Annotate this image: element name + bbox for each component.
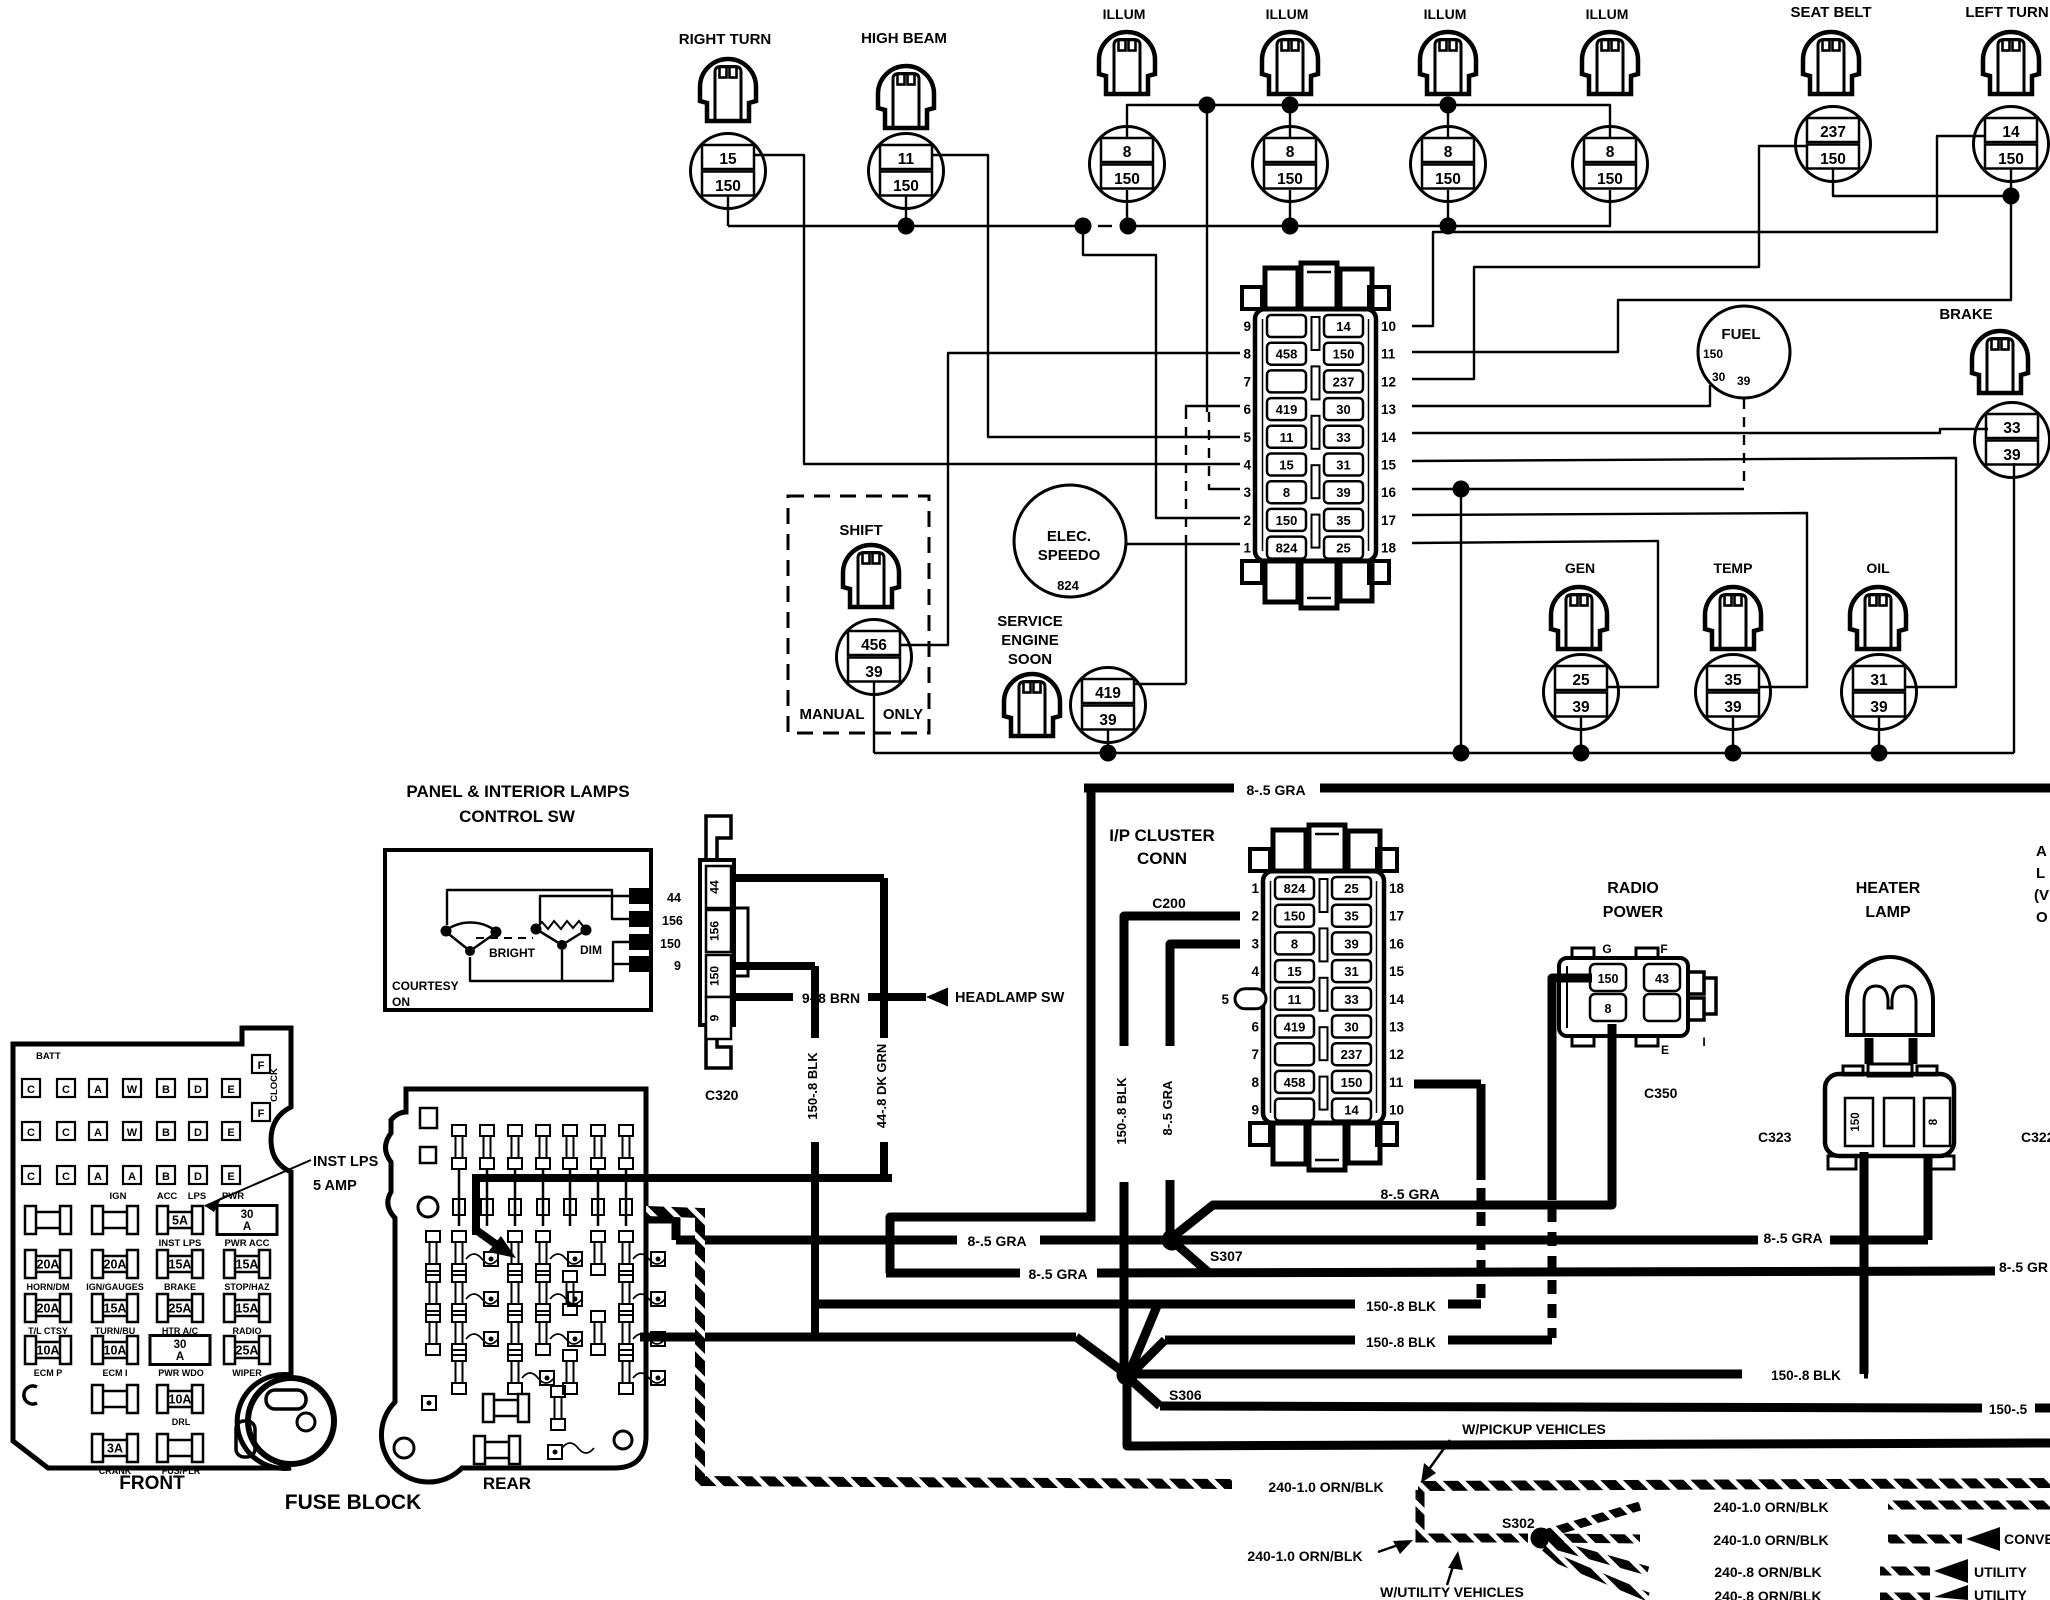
svg-text:5 AMP: 5 AMP (313, 1178, 357, 1194)
svg-text:4: 4 (1243, 458, 1251, 473)
svg-text:W/PICKUP VEHICLES: W/PICKUP VEHICLES (1462, 1421, 1606, 1437)
svg-text:25: 25 (1336, 541, 1350, 556)
wire 419 to pin 6 (dashed riser) (1134, 683, 1186, 685)
svg-text:15: 15 (1287, 964, 1301, 979)
lamp RIGHT TURN bulb (700, 59, 756, 121)
svg-text:POWER: POWER (1603, 904, 1664, 921)
lamp BRAKE bulb (1972, 331, 2028, 393)
svg-text:30: 30 (174, 1339, 187, 1351)
svg-text:15: 15 (1279, 458, 1293, 473)
svg-text:150-.8 BLK: 150-.8 BLK (805, 1052, 820, 1120)
svg-text:B: B (162, 1127, 170, 1139)
svg-text:824: 824 (1284, 881, 1306, 896)
connector circle 456/39 (shift) (837, 620, 912, 695)
svg-text:150: 150 (1597, 171, 1623, 188)
svg-text:STOP/HAZ: STOP/HAZ (224, 1282, 270, 1292)
wire pin16 riser to ground bus (1460, 489, 1462, 753)
svg-text:RADIO: RADIO (1607, 880, 1659, 897)
svg-text:15A: 15A (169, 1258, 192, 1272)
svg-text:G: G (1602, 942, 1611, 956)
svg-text:F: F (1660, 942, 1667, 956)
wire right-turn circle to bus (727, 196, 729, 226)
wire 419/39 drop to ground bus (1107, 730, 1109, 753)
svg-text:ON: ON (392, 995, 410, 1009)
heater lamp leads (1865, 1038, 1874, 1064)
wire radio G 150 dashed drop (1552, 978, 1592, 1200)
svg-text:SOON: SOON (1008, 651, 1052, 668)
connector circle 25/39 (gen) (1544, 655, 1619, 730)
junction dot bus 1128 (1120, 218, 1137, 235)
connector C323 heater (1825, 1074, 1954, 1156)
svg-text:5: 5 (1243, 430, 1251, 445)
fuse row E (92, 1385, 138, 1413)
rear block lower elements (426, 1231, 440, 1275)
lamp GEN bulb (1551, 587, 1607, 649)
rheostat BRIGHT (445, 922, 497, 951)
svg-text:ILLUM: ILLUM (1424, 6, 1467, 22)
svg-text:240-1.0 ORN/BLK: 240-1.0 ORN/BLK (1268, 1479, 1383, 1495)
rear block bottom fuses (483, 1394, 529, 1422)
svg-text:419: 419 (1276, 402, 1298, 417)
lamp LEFT TURN bulb (1983, 32, 2039, 94)
svg-text:SEAT BELT: SEAT BELT (1790, 4, 1871, 21)
wire 8-.5 GRA instrument feed bus (1084, 784, 1234, 793)
svg-text:RADIO: RADIO (233, 1326, 262, 1336)
svg-text:A: A (94, 1127, 102, 1139)
wire illum3 top riser (1447, 105, 1449, 138)
wire left-turn 150 drop (2010, 169, 2012, 196)
connector circle ILLUM 4 (1573, 127, 1648, 202)
wire S306 to 150 BLK line y=1304 (1130, 1306, 1157, 1371)
junction dot illum2 bottom (1282, 218, 1299, 235)
hatched 240-1.0 ORN/BLK from rear block (646, 1211, 1232, 1484)
I/P cluster connector C200 (lower) (1221, 825, 1404, 1170)
svg-text:CONTROL SW: CONTROL SW (459, 807, 576, 826)
svg-text:HIGH BEAM: HIGH BEAM (861, 30, 947, 47)
svg-text:PWR ACC: PWR ACC (224, 1238, 269, 1249)
svg-text:E: E (227, 1084, 234, 1096)
wire shift 456 to pin 8 (900, 353, 1240, 645)
svg-text:UTILITY: UTILITY (1974, 1587, 2028, 1600)
svg-text:150: 150 (1435, 171, 1461, 188)
wire 8-.5 GRA bus y=1272 to right edge (886, 1269, 1020, 1278)
wire illum2 circle to bus (1289, 190, 1291, 226)
fuse row A (25, 1206, 71, 1234)
junction S307 (1162, 1230, 1183, 1251)
junction dot illum2 top (1282, 97, 1299, 114)
svg-text:10A: 10A (169, 1393, 192, 1407)
svg-text:PWR WDO: PWR WDO (158, 1368, 204, 1378)
svg-text:A: A (2036, 843, 2047, 860)
svg-text:ECM P: ECM P (34, 1368, 63, 1378)
svg-text:13: 13 (1381, 402, 1397, 417)
wire right-turn 15 to pin 4 (754, 155, 1240, 464)
fuse row B (25, 1250, 71, 1278)
svg-text:B: B (162, 1084, 170, 1096)
svg-text:15: 15 (1381, 458, 1397, 473)
svg-text:150: 150 (708, 966, 722, 986)
connector circle 11/150 (high beam) (869, 134, 944, 209)
svg-text:12: 12 (1389, 1047, 1404, 1062)
svg-text:11: 11 (1280, 430, 1294, 445)
svg-text:C200: C200 (1152, 895, 1186, 911)
fuse row F (92, 1434, 138, 1462)
svg-text:I: I (1702, 1035, 1705, 1049)
wire elec speedo to pin 1 (1126, 543, 1240, 545)
svg-text:240-1.0 ORN/BLK: 240-1.0 ORN/BLK (1713, 1532, 1828, 1548)
rear block fuse columns (452, 1125, 466, 1169)
svg-text:ILLUM: ILLUM (1586, 6, 1629, 22)
wire S306 to 150 BLK line y=1340 (radio) (1133, 1340, 1165, 1372)
svg-text:ENGINE: ENGINE (1001, 632, 1059, 649)
svg-text:150: 150 (1850, 1112, 1862, 1131)
svg-text:15A: 15A (236, 1302, 259, 1316)
svg-text:5: 5 (1221, 992, 1229, 1007)
svg-text:8-.5 GRA: 8-.5 GRA (1028, 1266, 1087, 1282)
svg-text:O: O (2036, 909, 2048, 926)
svg-text:11: 11 (1381, 347, 1396, 362)
front block left C-cut (24, 1386, 37, 1404)
junction dot pin16 riser on ground bus (1453, 745, 1470, 762)
wire pin 18 to gen 25 (1412, 541, 1658, 687)
terminal letter grid (22, 1079, 40, 1097)
junction dot oil (1871, 745, 1888, 762)
svg-text:419: 419 (1095, 685, 1121, 702)
connector C350 radio power (1559, 958, 1688, 1036)
lamp ILLUM 3 bulb (1420, 32, 1476, 94)
svg-text:31: 31 (1870, 672, 1888, 689)
svg-text:REAR: REAR (483, 1474, 531, 1493)
junction dot feed bus to pin3 riser (1199, 97, 1216, 114)
svg-text:F: F (258, 1108, 265, 1120)
svg-text:8: 8 (1286, 144, 1295, 161)
svg-text:DIM: DIM (580, 943, 602, 957)
connector circle 237/150 (seat belt) (1796, 107, 1871, 182)
junction dot 419/39 on ground bus (1100, 745, 1117, 762)
svg-text:UTILITY: UTILITY (1974, 1564, 2028, 1580)
svg-text:ILLUM: ILLUM (1103, 6, 1146, 22)
gauge ELEC SPEEDO (1014, 485, 1126, 597)
wire fuel 30 to pin 13 (1412, 385, 1710, 406)
svg-text:D: D (194, 1127, 202, 1139)
svg-text:44: 44 (667, 891, 681, 905)
wire 8 GRA from rear block corner (646, 1219, 676, 1240)
svg-text:30: 30 (1712, 370, 1726, 384)
junction dot pin16 (1453, 481, 1470, 498)
svg-text:39: 39 (1336, 485, 1350, 500)
svg-text:14: 14 (1381, 430, 1397, 445)
svg-text:C323: C323 (1758, 1129, 1792, 1145)
svg-text:RIGHT TURN: RIGHT TURN (679, 31, 772, 48)
svg-text:C: C (27, 1171, 35, 1183)
svg-text:MANUAL: MANUAL (800, 706, 865, 723)
svg-text:CONVEN: CONVEN (2004, 1531, 2050, 1547)
svg-text:15: 15 (719, 151, 737, 168)
svg-text:E: E (227, 1171, 234, 1183)
arrow into fuse (476, 1230, 497, 1245)
REAR fuse block outline (381, 1089, 646, 1482)
svg-text:35: 35 (1336, 513, 1350, 528)
hatched drop to S302 (1420, 1490, 1528, 1538)
wire illum2 top riser (1289, 105, 1291, 138)
svg-text:15A: 15A (236, 1258, 259, 1272)
wire C320 pin44 44-.8 DK GRN (732, 874, 884, 882)
svg-text:150: 150 (1276, 513, 1298, 528)
svg-text:39: 39 (1724, 699, 1742, 716)
junction S306 (1117, 1365, 1138, 1386)
svg-text:A: A (243, 1221, 251, 1233)
svg-text:GEN: GEN (1565, 560, 1595, 576)
svg-text:35: 35 (1344, 909, 1358, 924)
rear block small holes (420, 1108, 437, 1128)
svg-text:11: 11 (898, 151, 915, 168)
S302 branch 2 240-1.0 ORN/BLK -> CONVEN (1550, 1538, 1640, 1539)
svg-text:IGN: IGN (110, 1191, 127, 1202)
svg-text:IGN/GAUGES: IGN/GAUGES (86, 1282, 144, 1292)
svg-text:8: 8 (1928, 1118, 1940, 1125)
wire brake 39 drop (2013, 463, 2015, 753)
svg-text:31: 31 (1344, 964, 1358, 979)
connector circle 15/150 (right turn) (691, 134, 766, 209)
svg-text:7: 7 (1243, 374, 1251, 389)
svg-text:ONLY: ONLY (883, 706, 923, 723)
svg-text:150-.5: 150-.5 (1989, 1402, 2028, 1417)
svg-text:8: 8 (1291, 936, 1298, 951)
svg-text:9: 9 (674, 959, 681, 973)
svg-text:20A: 20A (37, 1302, 60, 1316)
wire illum feed bus 8 (y=105) (1127, 105, 1610, 138)
junction dot illum3 top (1440, 97, 1457, 114)
wire fuel 39 dashed to pin 16 line (1743, 399, 1745, 487)
svg-text:FUSE BLOCK: FUSE BLOCK (285, 1491, 422, 1514)
svg-text:E: E (1661, 1043, 1669, 1057)
connector circle ILLUM 2 (1253, 127, 1328, 202)
svg-text:10: 10 (1389, 1103, 1404, 1118)
svg-text:150: 150 (1114, 171, 1140, 188)
svg-text:43: 43 (1655, 972, 1669, 986)
wire feed bus to pin 3 (circuit 8) (1206, 105, 1208, 412)
svg-text:BATT: BATT (36, 1051, 61, 1062)
svg-text:2: 2 (1243, 513, 1251, 528)
wire S307 diagonal to 8 GRA bus y=1272 (1176, 1244, 1208, 1272)
wire rear block 150 BLK to S306 (640, 1333, 1076, 1342)
svg-text:8-.5 GRA: 8-.5 GRA (967, 1233, 1026, 1249)
wire C200 pin11 150 to dashed riser (1414, 1080, 1481, 1089)
svg-text:30: 30 (1336, 402, 1350, 417)
svg-text:C350: C350 (1644, 1085, 1678, 1101)
svg-text:25: 25 (1344, 881, 1358, 896)
svg-text:PANEL & INTERIOR LAMPS: PANEL & INTERIOR LAMPS (406, 782, 629, 801)
svg-text:11: 11 (1288, 992, 1302, 1007)
svg-text:150-.8 BLK: 150-.8 BLK (1771, 1368, 1841, 1383)
svg-text:458: 458 (1276, 347, 1298, 362)
svg-text:150-.8 BLK: 150-.8 BLK (1114, 1077, 1129, 1145)
wire C320 pin150 150-.8 BLK (732, 962, 815, 970)
wire pin 17 to temp 35 (1412, 513, 1807, 687)
lamp SHIFT bulb (843, 545, 899, 607)
dashed wiper link bright-dim (476, 937, 533, 939)
svg-text:TEMP: TEMP (1714, 560, 1753, 576)
svg-text:150: 150 (1277, 171, 1303, 188)
connector circle 419/39 (service engine soon) (1071, 668, 1146, 743)
svg-text:A: A (94, 1084, 102, 1096)
svg-text:20A: 20A (37, 1258, 60, 1272)
svg-text:4: 4 (1251, 964, 1259, 979)
svg-text:ECM I: ECM I (102, 1368, 127, 1378)
svg-text:HEADLAMP SW: HEADLAMP SW (955, 990, 1065, 1006)
junction dot bus 1083 (1075, 218, 1092, 235)
svg-text:17: 17 (1381, 513, 1396, 528)
svg-text:BRIGHT: BRIGHT (489, 946, 536, 960)
junction dot left-turn 150 (2003, 188, 2020, 205)
wire 150 bus to pin 2 (1083, 226, 1240, 518)
svg-text:150: 150 (1333, 347, 1355, 362)
svg-text:150: 150 (893, 178, 919, 195)
svg-text:3: 3 (1251, 936, 1259, 951)
wire high-beam circle to bus (905, 196, 907, 226)
connector circle 35/39 (temp) (1696, 655, 1771, 730)
svg-text:44: 44 (708, 880, 722, 894)
wire oil 39 drop (1878, 717, 1880, 753)
svg-text:458: 458 (1284, 1075, 1306, 1090)
svg-text:5A: 5A (172, 1214, 188, 1228)
svg-text:C: C (62, 1084, 70, 1096)
wire 8 GRA jog to lower bus (890, 1217, 1095, 1273)
svg-text:9-.8 BRN: 9-.8 BRN (802, 990, 860, 1006)
connector circle 33/39 (brake) (1975, 403, 2050, 478)
svg-text:25A: 25A (236, 1344, 259, 1358)
lamp HIGH BEAM bulb (878, 66, 934, 128)
svg-text:CONN: CONN (1137, 849, 1187, 868)
junction dot high beam (898, 218, 915, 235)
svg-text:150: 150 (1341, 1075, 1363, 1090)
svg-text:150: 150 (715, 178, 741, 195)
wire heater 8 drop (1860, 1240, 1869, 1244)
fuse row C (25, 1294, 71, 1322)
lamp ILLUM 2 bulb (1262, 32, 1318, 94)
lamp ILLUM 4 bulb (1582, 32, 1638, 94)
svg-text:TURN/BU: TURN/BU (95, 1326, 136, 1336)
svg-text:ACC: ACC (157, 1191, 178, 1202)
svg-text:S306: S306 (1169, 1387, 1202, 1403)
wire seat-belt 237 to pin 12 (1412, 146, 1807, 379)
svg-text:39: 39 (1737, 374, 1751, 388)
FRONT fuse block outline (13, 1028, 291, 1469)
svg-text:17: 17 (1389, 909, 1404, 924)
svg-text:30: 30 (1344, 1020, 1358, 1035)
svg-text:824: 824 (1276, 541, 1298, 556)
svg-text:240-1.0 ORN/BLK: 240-1.0 ORN/BLK (1247, 1548, 1362, 1564)
svg-text:T/L CTSY: T/L CTSY (28, 1326, 68, 1336)
svg-text:237: 237 (1333, 374, 1355, 389)
svg-text:240-.8 ORN/BLK: 240-.8 ORN/BLK (1714, 1564, 1821, 1580)
svg-text:44-.8 DK GRN: 44-.8 DK GRN (874, 1044, 889, 1129)
svg-text:39: 39 (2003, 447, 2021, 464)
wire 8 GRA vertical x=1091 (1087, 784, 1096, 1221)
svg-text:8: 8 (1243, 347, 1251, 362)
svg-text:10A: 10A (37, 1344, 60, 1358)
svg-text:(V: (V (2034, 887, 2049, 904)
svg-text:W: W (127, 1084, 138, 1096)
ground bus 39 (y=753) (874, 752, 2014, 754)
svg-text:14: 14 (1344, 1103, 1359, 1118)
wire seat-belt 150 to left-turn junction (1833, 169, 2005, 196)
svg-text:D: D (194, 1171, 202, 1183)
svg-text:HORN/DM: HORN/DM (27, 1282, 70, 1292)
svg-text:25: 25 (1572, 672, 1590, 689)
svg-text:10A: 10A (104, 1344, 127, 1358)
svg-text:SERVICE: SERVICE (997, 613, 1063, 630)
junction dot illum3 bottom (1440, 218, 1457, 235)
svg-text:DRL: DRL (172, 1417, 191, 1427)
C350 pin boxes (1590, 964, 1626, 991)
svg-text:FUEL: FUEL (1721, 326, 1760, 343)
svg-text:C: C (62, 1127, 70, 1139)
switch box outline (385, 850, 651, 1010)
arrowhead headlamp sw (926, 988, 948, 1007)
wire illum4 circle to bus (1609, 190, 1611, 226)
svg-text:F: F (258, 1060, 265, 1072)
lamp SERVICE ENGINE SOON bulb (1004, 674, 1060, 736)
svg-text:D: D (194, 1084, 202, 1096)
svg-text:8: 8 (1444, 144, 1453, 161)
svg-text:8: 8 (1606, 144, 1615, 161)
wire pin 15 to oil 31 (1412, 458, 1956, 687)
svg-text:150-.8 BLK: 150-.8 BLK (1366, 1299, 1436, 1314)
svg-text:10: 10 (1381, 319, 1396, 334)
svg-text:150: 150 (660, 937, 681, 951)
svg-text:WIPER: WIPER (232, 1368, 262, 1378)
heater lamp bulb (1847, 957, 1933, 1035)
svg-text:25A: 25A (169, 1302, 192, 1316)
connector circle 31/39 (oil) (1842, 655, 1917, 730)
S302 branch 3 240-.8 ORN/BLK -> UTILITY (1548, 1543, 1648, 1571)
junction dot temp (1725, 745, 1742, 762)
svg-text:14: 14 (2002, 124, 2020, 141)
svg-text:33: 33 (1336, 430, 1350, 445)
svg-text:11: 11 (1389, 1075, 1404, 1090)
svg-text:8-.5 GRA: 8-.5 GRA (1160, 1080, 1175, 1136)
svg-text:OIL: OIL (1866, 560, 1890, 576)
svg-text:150-.8 BLK: 150-.8 BLK (1366, 1335, 1436, 1350)
svg-text:C320: C320 (705, 1087, 739, 1103)
svg-text:237: 237 (1820, 124, 1846, 141)
svg-text:LPS: LPS (188, 1191, 206, 1202)
wire S306 to heater 150 y=1374 (1136, 1370, 1742, 1379)
svg-text:33: 33 (2003, 420, 2021, 437)
svg-text:20A: 20A (104, 1258, 127, 1272)
svg-text:8: 8 (1283, 485, 1290, 500)
svg-text:8-.5 GRA: 8-.5 GRA (1763, 1230, 1822, 1246)
svg-text:8-.5 GRA: 8-.5 GRA (1246, 782, 1305, 798)
wire C320 pin9 9-.8 BRN to headlamp sw (732, 993, 793, 1001)
svg-text:419: 419 (1284, 1020, 1306, 1035)
svg-text:30: 30 (241, 1209, 254, 1221)
svg-text:B: B (162, 1171, 170, 1183)
C323 pin boxes 150 / blank / 8 (1845, 1098, 1873, 1146)
svg-text:LEFT TURN: LEFT TURN (1965, 4, 2048, 21)
svg-text:A: A (176, 1351, 184, 1363)
svg-text:18: 18 (1389, 881, 1405, 896)
svg-text:156: 156 (662, 914, 683, 928)
svg-text:C: C (27, 1127, 35, 1139)
svg-text:15: 15 (1389, 964, 1405, 979)
svg-text:240-.8 ORN/BLK: 240-.8 ORN/BLK (1714, 1588, 1821, 1600)
wire illum3 circle to bus (1447, 190, 1449, 226)
wire shift 39 drop to ground bus (873, 682, 875, 753)
svg-text:7: 7 (1251, 1047, 1259, 1062)
svg-text:INST LPS: INST LPS (313, 1154, 379, 1170)
